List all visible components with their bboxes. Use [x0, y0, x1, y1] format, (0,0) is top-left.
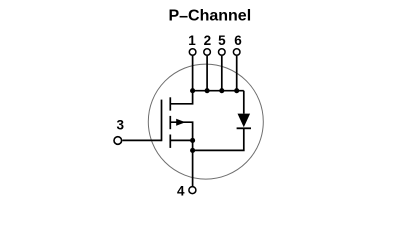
svg-text:5: 5: [218, 33, 226, 48]
pin 6 terminal circle: [233, 49, 240, 56]
transistor Q1 body arrow: [176, 119, 185, 126]
wire pin3 to gate: [122, 139, 161, 141]
pin 5 terminal circle: [219, 49, 226, 56]
wire source stub: [170, 139, 192, 141]
wire source to pin4 net: [192, 140, 194, 186]
svg-text:P–Channel: P–Channel: [168, 7, 251, 25]
wire body stub: [170, 122, 192, 140]
node pin6 junction: [234, 88, 239, 93]
node source junction: [190, 138, 195, 143]
wire pin5 drop: [221, 56, 223, 91]
transistor Q1 gate: [161, 100, 163, 142]
svg-text:3: 3: [117, 117, 125, 132]
svg-text:2: 2: [204, 33, 212, 48]
node pin2 junction: [205, 88, 210, 93]
pin 2 terminal circle: [204, 49, 211, 56]
svg-text:1: 1: [188, 33, 196, 48]
wire top bus: [193, 90, 244, 92]
wire drain stub: [170, 91, 192, 104]
transistor Q1 channel top segment: [169, 97, 171, 110]
wire pin2 drop: [206, 56, 208, 91]
transistor Q1 channel bottom segment: [169, 135, 171, 148]
node pin1 junction: [190, 88, 195, 93]
pin 4 terminal circle: [189, 187, 196, 194]
package circle: [148, 64, 263, 179]
wire diode cathode: [193, 128, 244, 150]
wire diode anode: [243, 91, 245, 114]
transistor Q1 channel middle segment: [169, 116, 171, 129]
node diode return junction: [190, 148, 195, 153]
diode D1 cathode bar: [237, 127, 251, 129]
pin 1 terminal circle: [189, 49, 196, 56]
node pin5 junction: [219, 88, 224, 93]
svg-text:6: 6: [234, 33, 242, 48]
svg-text:4: 4: [177, 183, 185, 198]
wire pin6 drop: [236, 56, 238, 91]
pin 3 terminal circle: [114, 137, 122, 145]
wire pin1 drop: [192, 56, 194, 91]
diode D1 body: [238, 114, 251, 128]
